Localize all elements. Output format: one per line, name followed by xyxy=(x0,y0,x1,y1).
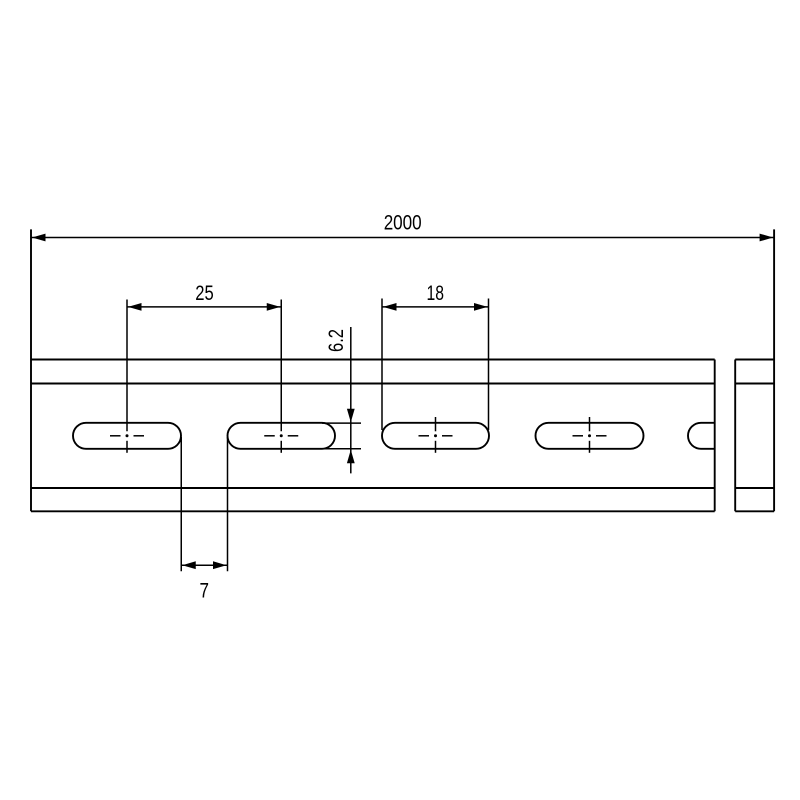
slot 4 xyxy=(536,423,644,449)
slot 4 centre mark xyxy=(573,417,607,453)
slot 2 xyxy=(228,423,336,449)
dimension 6.2: upper arrow (points down) xyxy=(347,409,355,423)
dimension 25: right arrow xyxy=(267,303,281,311)
end piece inner bottom fold line xyxy=(735,487,774,489)
dimension 7: right arrow xyxy=(213,561,227,569)
dimension 25: left arrow xyxy=(128,303,142,311)
end piece right edge + 2000 right extension line xyxy=(773,229,775,511)
rail right break edge xyxy=(714,360,716,512)
dimension 18: line xyxy=(382,306,489,308)
svg-text:6.2: 6.2 xyxy=(324,329,348,352)
end piece left break edge xyxy=(734,360,736,512)
dimension 6.2: lower arrow (points up) xyxy=(347,450,355,464)
dimension 18: left extension line xyxy=(381,299,383,431)
dimension 2000: right arrow xyxy=(760,234,774,242)
dimension 7: left extension line xyxy=(180,437,182,571)
svg-text:7: 7 xyxy=(200,578,210,602)
slot 2 centre mark + 25 dim right extension line xyxy=(264,300,298,453)
dimension 18: right extension line xyxy=(488,299,490,431)
dimension 6.2: bottom tick xyxy=(322,448,361,450)
svg-text:18: 18 xyxy=(426,281,444,305)
dimension 18: right arrow xyxy=(474,303,488,311)
dimension 25: line xyxy=(127,306,281,308)
dimension 6.2: vertical line xyxy=(350,327,352,473)
end piece inner top fold line xyxy=(735,383,774,385)
dimension 2000: left arrow xyxy=(32,234,46,242)
dimension 2000: line xyxy=(31,237,774,239)
slot 1 centre mark + 25 dim left extension line xyxy=(110,300,144,453)
slot 3 centre mark xyxy=(419,417,453,453)
dimension 18: left arrow xyxy=(383,303,397,311)
rail inner bottom fold line xyxy=(31,487,715,489)
dimension 6.2: top tick xyxy=(322,422,361,424)
svg-text:25: 25 xyxy=(195,281,214,305)
dimension 7: right extension line xyxy=(227,437,229,571)
end piece top edge xyxy=(735,359,774,361)
rail bottom edge xyxy=(31,510,715,512)
rail top edge xyxy=(31,359,715,361)
slot 3 xyxy=(382,423,489,449)
svg-text:2000: 2000 xyxy=(384,211,422,235)
dimension 7: line xyxy=(181,564,227,566)
dimension 7: left arrow xyxy=(182,561,196,569)
rail inner top fold line xyxy=(31,383,715,385)
slot 1 xyxy=(73,423,181,449)
end piece bottom edge xyxy=(735,510,774,512)
slot 5 (cut by rail break) xyxy=(688,423,715,449)
rail left edge + 2000 left extension line xyxy=(30,229,32,511)
